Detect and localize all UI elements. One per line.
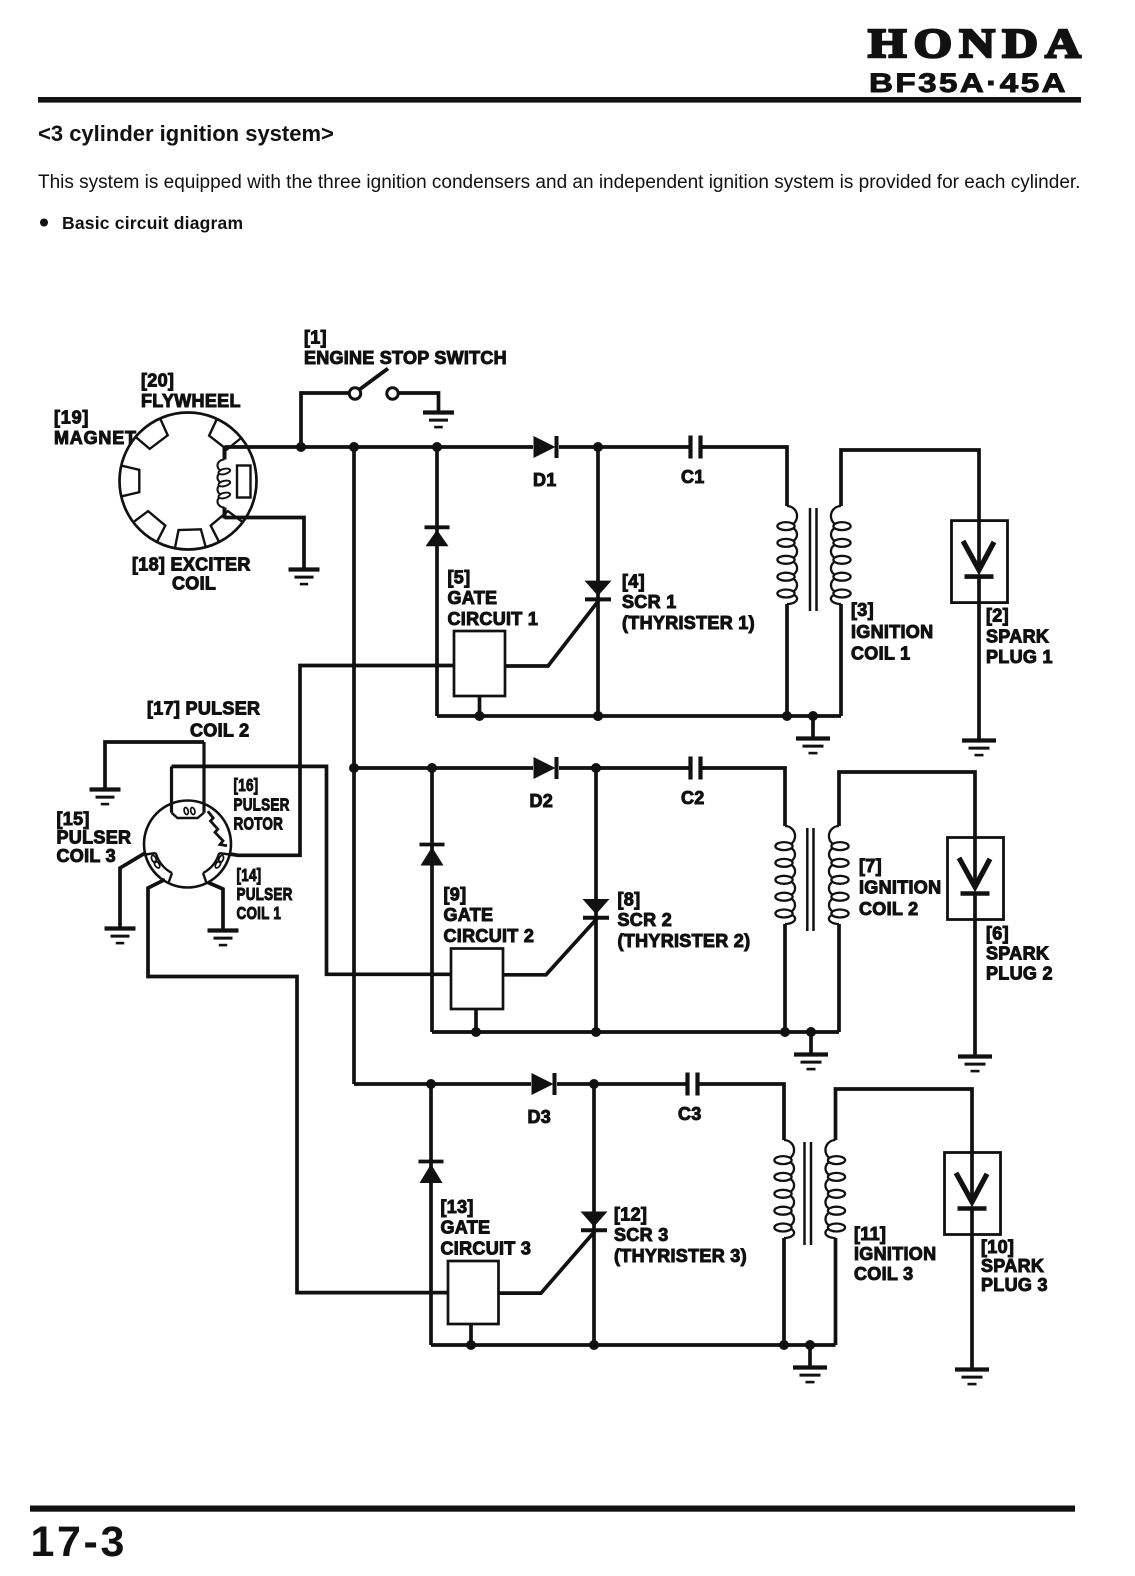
pulser coil 2 (17) winding on rotor (172, 742, 205, 818)
ground ignition coil 1 (796, 739, 830, 754)
label [11] ignition coil 3 (854, 1224, 936, 1284)
svg-text:IGNITION: IGNITION (851, 622, 933, 642)
wire row2 bottom rail (432, 1030, 839, 1034)
pulser coil 3 (15) winding on rotor (145, 853, 172, 883)
svg-text:[1]: [1] (304, 328, 327, 348)
flywheel magnet segments (19) (122, 419, 242, 547)
label [9] gate circuit 2 (444, 885, 535, 946)
wire secondary1 bottom lead (839, 604, 843, 716)
svg-text:D3: D3 (528, 1107, 552, 1127)
node bus-gate1 junction (432, 442, 442, 452)
svg-text:IGNITION: IGNITION (854, 1244, 936, 1264)
wire D2 to C2 (559, 766, 689, 770)
svg-text:BF35A·45A: BF35A·45A (869, 68, 1068, 98)
diode D2 (534, 757, 557, 779)
wire pulser coil3 signal to gate circuit 3 (148, 880, 448, 1293)
svg-text:[3]: [3] (851, 600, 874, 620)
node row2 bus zener junction (427, 763, 437, 773)
label [14] pulser coil 1 (237, 866, 293, 923)
svg-text:FLYWHEEL: FLYWHEEL (141, 391, 241, 411)
label D2 (530, 791, 554, 811)
node bottom SCR3 (589, 1340, 599, 1350)
svg-text:[6]: [6] (986, 924, 1009, 944)
svg-text:[15]: [15] (57, 809, 90, 829)
label [19] magnet (54, 408, 137, 449)
label [4] SCR 1 (622, 572, 755, 633)
wire pulser coil2 signal to gate circuit 2 (172, 766, 452, 974)
wire gate1 output to SCR1 gate (505, 600, 599, 666)
wire SCR3 anode-cathode (592, 1084, 596, 1345)
label C3 (678, 1104, 702, 1124)
flywheel rim (20) (120, 413, 257, 550)
svg-text:[17] PULSER: [17] PULSER (147, 699, 260, 719)
label D1 (533, 470, 557, 490)
node row3 bus SCR junction (589, 1079, 599, 1089)
label [7] ignition coil 2 (859, 856, 941, 919)
wire switch left branch (301, 393, 349, 445)
svg-text:C1: C1 (681, 467, 705, 487)
svg-text:SPARK: SPARK (986, 944, 1049, 964)
wire gate2 box to bottom (474, 1009, 478, 1032)
gate circuit 3 box (448, 1261, 499, 1324)
switch lever arm (360, 369, 389, 390)
wire SCR1 anode-cathode (596, 447, 600, 716)
wire pulser coil1 signal to gate circuit 1 (230, 666, 455, 856)
bullet basic circuit diagram (40, 213, 243, 233)
svg-text:(THYRISTER 1): (THYRISTER 1) (622, 613, 755, 633)
node bottom gate1 lead (475, 711, 485, 721)
wire spark plug 1 electrode (977, 521, 981, 567)
svg-text:[16]: [16] (234, 776, 259, 795)
wire SCR2 anode-cathode (594, 768, 598, 1032)
svg-text:[8]: [8] (618, 890, 641, 910)
svg-text:D1: D1 (533, 470, 557, 490)
svg-text:[7]: [7] (859, 856, 882, 876)
pulser rotor rim (16) (144, 801, 231, 888)
wire zener branch row1 (435, 447, 439, 716)
wire vertical feeder x354 (352, 447, 356, 1084)
diode D3 (532, 1073, 555, 1095)
capacitor C1 (691, 436, 701, 459)
wire switch right to ground (399, 393, 439, 411)
HONDA logo (868, 20, 1088, 66)
wire C2 to coil2 primary (703, 768, 786, 826)
wire primary1 bottom lead (785, 604, 789, 716)
ground switch (423, 413, 454, 428)
wire C3 to coil3 primary (700, 1084, 785, 1140)
wire gate3 box to bottom (469, 1324, 473, 1345)
label [2] spark plug 1 (986, 606, 1053, 668)
svg-text:[5]: [5] (448, 568, 471, 588)
svg-text:C3: C3 (678, 1104, 702, 1124)
node bottom gate2 lead (471, 1027, 481, 1037)
svg-text:Basic circuit diagram: Basic circuit diagram (62, 213, 243, 233)
spark plug 3 (945, 1153, 1001, 1235)
footer rule (30, 1506, 1075, 1512)
svg-text:[13]: [13] (441, 1197, 474, 1217)
ignition coil 1 secondary winding (831, 506, 851, 604)
header rule (38, 97, 1081, 103)
wire zener branch row3 (429, 1084, 433, 1345)
svg-text:COIL 3: COIL 3 (57, 846, 116, 866)
svg-text:C2: C2 (681, 788, 705, 808)
wire exciter coil to ground (225, 518, 305, 569)
svg-text:HONDA: HONDA (868, 20, 1088, 66)
diode (gate) row1 (425, 527, 450, 546)
node row1 bus SCR join dup (593, 711, 603, 721)
diode (gate) row2 (420, 845, 445, 866)
wire secondary3 top to spark plug (836, 1089, 973, 1153)
ground spark plug 2 (958, 1057, 992, 1072)
node bottom ground stub2 (806, 1027, 816, 1037)
svg-text:[12]: [12] (614, 1205, 647, 1225)
wire spark plug 3 electrode (970, 1153, 974, 1199)
wire pulser coil1 to ground (208, 883, 223, 930)
svg-text:[11]: [11] (854, 1224, 886, 1244)
svg-text:COIL: COIL (172, 574, 216, 594)
ignition coil 1 core (810, 508, 817, 611)
wire spark plug 2 electrode (973, 838, 977, 884)
label [8] SCR 2 (618, 890, 751, 951)
thyristor SCR3 (581, 1212, 608, 1231)
svg-text:SCR 3: SCR 3 (614, 1225, 669, 1245)
svg-text:COIL 3: COIL 3 (854, 1264, 913, 1284)
wire zener branch row2 (430, 768, 434, 1032)
ground spark plug 3 (955, 1370, 989, 1385)
ignition coil 3 secondary winding (825, 1140, 845, 1238)
svg-text:COIL 2: COIL 2 (859, 899, 918, 919)
svg-text:PULSER: PULSER (234, 796, 290, 815)
node bottom primary2 (780, 1027, 790, 1037)
wire secondary3 bottom lead (834, 1238, 838, 1345)
svg-text:PLUG 1: PLUG 1 (986, 647, 1053, 667)
gate circuit 1 box (454, 631, 505, 696)
wire gate1 box to bottom (478, 696, 482, 716)
svg-text:[2]: [2] (986, 606, 1009, 626)
svg-text:PLUG 2: PLUG 2 (986, 964, 1053, 984)
svg-text:PULSER: PULSER (57, 828, 132, 848)
title 3 cylinder ignition system (38, 121, 334, 146)
label [12] SCR 3 (614, 1205, 747, 1266)
node bottom SCR2 (591, 1027, 601, 1037)
svg-text:IGNITION: IGNITION (859, 878, 941, 898)
node bottom primary1 (782, 711, 792, 721)
svg-text:<3 cylinder ignition system>: <3 cylinder ignition system> (38, 121, 334, 146)
wire row3 bus left segment (354, 1082, 531, 1086)
wire gate2 output to SCR2 gate (503, 919, 597, 975)
ignition coil 1 primary winding (777, 506, 797, 604)
svg-text:[20]: [20] (141, 371, 174, 391)
wire row1 bottom rail (437, 714, 841, 718)
switch contact right (387, 388, 398, 399)
svg-text:D2: D2 (530, 791, 554, 811)
wire coil2 ground stub (809, 1032, 813, 1054)
exciter coil (18) winding (218, 447, 231, 519)
node bottom ground stub3 (805, 1340, 815, 1350)
label D3 (528, 1107, 552, 1127)
svg-text:SCR 2: SCR 2 (618, 910, 673, 930)
capacitor C2 (691, 757, 701, 780)
svg-text:SPARK: SPARK (981, 1256, 1044, 1276)
node bus-switch junction (296, 442, 306, 452)
diode (gate) row3 (419, 1162, 444, 1184)
svg-text:[4]: [4] (622, 572, 645, 592)
page number 17-3 (31, 1518, 127, 1566)
body paragraph (38, 172, 1080, 193)
svg-text:MAGNET: MAGNET (54, 428, 137, 448)
wire coil3 ground stub (808, 1345, 812, 1367)
label [6] spark plug 2 (986, 924, 1053, 984)
svg-text:GATE: GATE (444, 905, 494, 925)
svg-text:COIL 1: COIL 1 (851, 644, 910, 664)
wire primary3 bottom lead (782, 1238, 786, 1345)
svg-text:(THYRISTER 3): (THYRISTER 3) (614, 1246, 747, 1266)
node row3 bus zener junction (426, 1079, 436, 1089)
svg-text:[14]: [14] (237, 866, 262, 885)
ground ignition coil 2 (794, 1055, 828, 1070)
label [13] gate circuit 3 (441, 1197, 532, 1258)
ignition coil 2 secondary winding (829, 826, 849, 924)
spark plug 2 (948, 838, 1004, 920)
wire primary2 bottom lead (783, 924, 787, 1032)
svg-text:PLUG 3: PLUG 3 (981, 1275, 1048, 1295)
wire row2 bus left segment (354, 766, 533, 770)
wire spark plug 3 to ground (970, 1211, 974, 1369)
wire coil1 ground stub (811, 716, 815, 738)
node row2 bus SCR junction (591, 763, 601, 773)
ground spark plug 1 (962, 741, 996, 756)
wire secondary2 bottom lead (837, 924, 841, 1032)
ground pulser coil 2 (90, 790, 121, 805)
label [18] exciter coil (132, 555, 251, 594)
ignition coil 2 primary winding (775, 826, 795, 924)
wire secondary2 top to spark plug (839, 772, 975, 838)
thyristor SCR2 (583, 899, 610, 918)
ground ignition coil 3 (793, 1368, 827, 1383)
node bottom SCR1 (593, 711, 603, 721)
wire spark plug 2 to ground (973, 896, 977, 1056)
svg-text:(THYRISTER 2): (THYRISTER 2) (618, 931, 751, 951)
svg-text:This system is equipped with t: This system is equipped with the three i… (38, 172, 1080, 193)
svg-text:[10]: [10] (981, 1237, 1014, 1257)
spark plug 1 (952, 521, 1008, 603)
wire D3 to C3 (557, 1082, 686, 1086)
ground pulser coil 3 (105, 929, 136, 944)
svg-text:PULSER: PULSER (237, 885, 293, 904)
label [5] gate circuit 1 (448, 568, 539, 629)
node bottom ground stub1 (808, 711, 818, 721)
wire pulser coil3 to ground (120, 853, 146, 928)
model BF35A-45A (869, 68, 1068, 98)
wire spark plug 1 to ground (977, 579, 981, 740)
label C1 (681, 467, 705, 487)
svg-text:SCR 1: SCR 1 (622, 592, 677, 612)
svg-text:[9]: [9] (444, 885, 467, 905)
svg-text:[18] EXCITER: [18] EXCITER (132, 555, 251, 575)
svg-text:GATE: GATE (448, 588, 498, 608)
capacitor C3 (688, 1073, 698, 1096)
svg-text:CIRCUIT 1: CIRCUIT 1 (448, 609, 539, 629)
wire C1 to coil1 primary (703, 447, 788, 506)
svg-text:CIRCUIT 3: CIRCUIT 3 (441, 1238, 532, 1258)
wire row3 bottom rail (431, 1343, 836, 1347)
wire secondary1 top to spark plug (841, 450, 979, 521)
svg-text:17-3: 17-3 (31, 1518, 127, 1566)
svg-text:COIL 2: COIL 2 (190, 721, 249, 741)
node row2 bus feeder junction (349, 763, 359, 773)
diode D1 (534, 436, 557, 458)
switch contact left (349, 388, 360, 399)
ground pulser coil 1 (208, 931, 239, 946)
label [15] pulser coil 3 (57, 809, 132, 866)
node bottom gate3 lead (466, 1340, 476, 1350)
ignition coil 3 core (805, 1142, 812, 1245)
node bus-x354 junction (349, 442, 359, 452)
wire pulser coil2 to ground (105, 742, 204, 788)
svg-text:GATE: GATE (441, 1218, 491, 1238)
label C2 (681, 788, 705, 808)
gate circuit 2 box (451, 949, 503, 1010)
wire gate3 output to SCR3 gate (499, 1231, 596, 1293)
node bottom primary3 (779, 1340, 789, 1350)
svg-text:ENGINE STOP SWITCH: ENGINE STOP SWITCH (304, 348, 507, 368)
svg-text:COIL 1: COIL 1 (237, 904, 282, 923)
svg-text:SPARK: SPARK (986, 626, 1049, 646)
pulser coil 1 (14) winding on rotor (203, 853, 230, 883)
wire D1 to C1 (559, 445, 689, 449)
label [17] pulser coil 2 (147, 699, 260, 741)
exciter coil core pole (237, 466, 251, 498)
label [3] ignition coil 1 (851, 600, 933, 664)
ignition coil 2 core (807, 828, 813, 931)
node bus-SCR1 junction (593, 442, 603, 452)
svg-text:[19]: [19] (54, 408, 89, 428)
ignition coil 3 primary winding (774, 1140, 794, 1238)
label [1] engine stop switch (304, 328, 507, 369)
label [10] spark plug 3 (981, 1237, 1048, 1295)
svg-text:ROTOR: ROTOR (234, 815, 284, 834)
pulser rotor lobe teeth (208, 811, 227, 846)
svg-text:CIRCUIT 2: CIRCUIT 2 (444, 926, 535, 946)
wire main bus from exciter to D1 (225, 445, 534, 449)
label [20] flywheel (141, 371, 241, 412)
thyristor SCR1 (585, 581, 612, 600)
label [16] pulser rotor (234, 776, 290, 834)
ground exciter coil (289, 570, 320, 585)
